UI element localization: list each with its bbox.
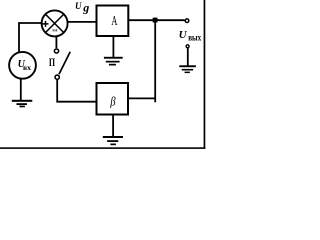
svg-text:вых: вых — [188, 33, 201, 43]
svg-text:вх: вх — [23, 63, 31, 72]
svg-text:β: β — [110, 94, 117, 108]
svg-text:A: A — [111, 13, 117, 28]
svg-text:U: U — [75, 1, 82, 11]
svg-text:П: П — [49, 55, 56, 69]
svg-text:g: g — [82, 0, 89, 14]
svg-text:U: U — [179, 29, 188, 41]
